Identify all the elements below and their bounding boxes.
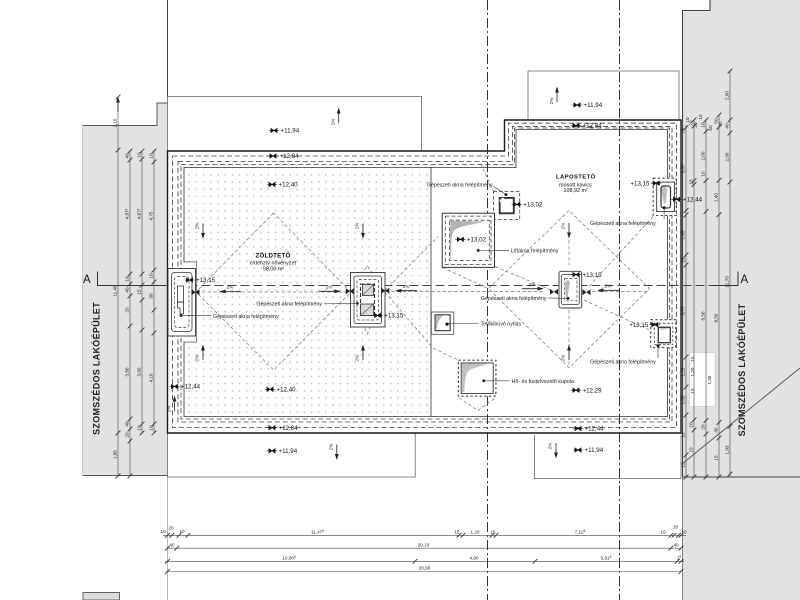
svg-text:20: 20 bbox=[673, 525, 679, 530]
small grey bar bottom-left bbox=[83, 593, 120, 600]
svg-text:+12,84: +12,84 bbox=[280, 153, 300, 160]
svg-text:4,10: 4,10 bbox=[149, 373, 154, 382]
svg-text:Gépészeti akna felépítmény: Gépészeti akna felépítmény bbox=[590, 359, 656, 365]
right dimension chain 2 (x=694) bbox=[689, 118, 697, 480]
svg-text:2%: 2% bbox=[195, 355, 200, 362]
leader label: tetokibuvo bbox=[448, 321, 521, 327]
green roof stipple field bbox=[185, 168, 431, 417]
svg-text:10: 10 bbox=[701, 122, 706, 128]
green roof drain centerline bbox=[196, 291, 350, 293]
svg-text:1,65: 1,65 bbox=[681, 230, 686, 239]
svg-text:2,15: 2,15 bbox=[113, 118, 118, 127]
svg-text:2%: 2% bbox=[355, 355, 360, 362]
svg-text:8,50: 8,50 bbox=[701, 311, 706, 320]
svg-text:1,20: 1,20 bbox=[681, 367, 686, 376]
svg-text:10: 10 bbox=[689, 422, 694, 428]
kupola valley V bbox=[459, 398, 496, 411]
svg-text:20: 20 bbox=[125, 432, 130, 438]
section line A-A bbox=[98, 285, 739, 287]
ray lift SW to flat diamond west vertex bbox=[443, 268, 489, 289]
svg-text:10: 10 bbox=[149, 273, 154, 279]
ray lift corner to center drain bbox=[495, 267, 552, 291]
svg-text:20: 20 bbox=[168, 526, 174, 531]
svg-text:10: 10 bbox=[125, 276, 130, 282]
svg-text:40: 40 bbox=[673, 542, 679, 547]
svg-text:10: 10 bbox=[660, 530, 666, 535]
bottom dimension row 4 bbox=[165, 566, 683, 574]
svg-text:50: 50 bbox=[708, 125, 713, 131]
svg-text:2%: 2% bbox=[167, 406, 172, 413]
svg-text:A: A bbox=[741, 274, 749, 286]
dimension 2,15 top left bbox=[113, 95, 121, 153]
center flat-roof drain structure D3 bbox=[550, 271, 591, 308]
svg-text:2%: 2% bbox=[549, 98, 554, 105]
ray middle drain to kupola bbox=[385, 292, 458, 360]
right dimension chain 1 (x=686) bbox=[681, 125, 689, 479]
svg-text:4,75: 4,75 bbox=[149, 211, 154, 220]
title laposteto bbox=[556, 174, 596, 195]
svg-text:Gépészeti akna felépítmény: Gépészeti akna felépítmény bbox=[256, 302, 322, 308]
svg-text:98,00 m²: 98,00 m² bbox=[263, 267, 284, 273]
right neighbour building grey block lower bbox=[683, 477, 800, 600]
svg-text:2,00: 2,00 bbox=[701, 151, 706, 160]
svg-text:+12,44: +12,44 bbox=[585, 426, 605, 433]
svg-text:2%: 2% bbox=[355, 223, 360, 230]
svg-text:Liftakna felépítmény: Liftakna felépítmény bbox=[511, 248, 559, 254]
flat roof centerline east bbox=[587, 291, 650, 293]
left dimension chain 2 (x=130) bbox=[125, 149, 133, 479]
white zone of left drain notch bbox=[184, 262, 196, 341]
svg-text:15: 15 bbox=[490, 530, 496, 535]
right dimension chain 6 (x=738 12,70) bbox=[725, 276, 730, 288]
svg-text:+12,29: +12,29 bbox=[583, 387, 603, 394]
svg-text:Gépészeti akna felépítmény: Gépészeti akna felépítmény bbox=[427, 183, 493, 189]
svg-text:10: 10 bbox=[179, 529, 185, 534]
svg-text:2%: 2% bbox=[529, 282, 536, 287]
svg-text:+12,40: +12,40 bbox=[279, 182, 299, 189]
svg-text:10,085: 10,085 bbox=[282, 555, 296, 560]
top-right parapet drain structure bbox=[653, 178, 676, 219]
svg-text:108,92 m²: 108,92 m² bbox=[563, 188, 587, 194]
ray middle drain to lift corner bbox=[385, 237, 438, 291]
svg-text:40: 40 bbox=[725, 123, 730, 129]
extension line below building left bbox=[167, 477, 169, 600]
svg-text:ZÖLDTETŐ: ZÖLDTETŐ bbox=[256, 252, 291, 259]
svg-text:+13,15: +13,15 bbox=[196, 277, 216, 284]
right dimension chain 5 (x=730) bbox=[725, 69, 733, 477]
svg-text:40: 40 bbox=[125, 421, 130, 427]
svg-text:10: 10 bbox=[685, 117, 690, 123]
property diagonal line on right grey bbox=[683, 368, 800, 464]
svg-text:Tetőkibúvó nyílás: Tetőkibúvó nyílás bbox=[481, 321, 522, 327]
svg-text:Gépészeti akna felépítmény: Gépészeti akna felépítmény bbox=[213, 314, 279, 320]
svg-text:10: 10 bbox=[681, 530, 687, 535]
leader label: gepeszeti akna D3 bbox=[481, 296, 568, 302]
svg-text:+12,84: +12,84 bbox=[279, 425, 299, 432]
svg-text:15: 15 bbox=[714, 455, 719, 461]
property line top bbox=[167, 0, 169, 97]
svg-text:Hő- és füstelvezető kupola: Hő- és füstelvezető kupola bbox=[512, 379, 574, 385]
svg-text:1,35: 1,35 bbox=[707, 375, 712, 384]
svg-text:SZOMSZÉDOS LAKÓÉPÜLET: SZOMSZÉDOS LAKÓÉPÜLET bbox=[91, 302, 102, 435]
left dimension chain 4 (x=154) bbox=[149, 149, 157, 436]
slope arrows 2 percent bbox=[167, 87, 620, 461]
svg-text:+11,94: +11,94 bbox=[584, 102, 603, 109]
middle drain small diamond bbox=[351, 266, 385, 334]
building outer outline bbox=[168, 120, 682, 433]
north-left lower roof strip +11,94 bbox=[168, 97, 422, 152]
svg-text:1,40: 1,40 bbox=[714, 193, 719, 202]
svg-text:SZOMSZÉDOS LAKÓÉPÜLET: SZOMSZÉDOS LAKÓÉPÜLET bbox=[736, 303, 747, 436]
svg-text:40: 40 bbox=[125, 153, 130, 159]
ray top-right drain to center drain bbox=[588, 217, 654, 289]
smoke vent dome kupola bbox=[458, 360, 496, 396]
svg-text:1,93: 1,93 bbox=[725, 445, 730, 454]
green/flat roof boundary line bbox=[430, 168, 432, 417]
right dimension chain 4 (x=719) bbox=[714, 113, 722, 480]
parapet inner boundary with drain notch bbox=[184, 130, 668, 417]
svg-text:+13,15: +13,15 bbox=[384, 313, 404, 320]
svg-text:2%: 2% bbox=[331, 119, 336, 126]
svg-text:15: 15 bbox=[454, 530, 460, 535]
svg-text:2%: 2% bbox=[605, 284, 612, 289]
right dimension chain 3 (x=706) bbox=[701, 118, 709, 480]
leader label: gepeszeti akna bottom-right bbox=[590, 359, 656, 365]
north-right lower roof strip +11,94 bbox=[528, 71, 679, 120]
svg-text:15: 15 bbox=[689, 179, 694, 185]
flat roof centerline west bbox=[386, 291, 544, 293]
svg-text:2%: 2% bbox=[561, 355, 566, 362]
section grid dash-dot line x=619.5 bbox=[619, 0, 621, 600]
parapet dashed line 1 bbox=[173, 123, 677, 427]
svg-text:15: 15 bbox=[137, 289, 142, 295]
svg-text:+13,15: +13,15 bbox=[630, 180, 650, 187]
svg-text:1,20: 1,20 bbox=[690, 367, 695, 376]
leader label: gepeszeti akna D2 bbox=[256, 302, 357, 308]
svg-text:12,70: 12,70 bbox=[725, 276, 730, 288]
middle drain structure D2 bbox=[346, 273, 390, 328]
ray center drain to bottom-right drain bbox=[584, 300, 652, 331]
svg-text:18: 18 bbox=[681, 257, 686, 263]
svg-text:10: 10 bbox=[701, 171, 706, 177]
green roof ridge diamond bbox=[196, 213, 351, 370]
svg-text:2%: 2% bbox=[329, 444, 334, 451]
svg-text:30: 30 bbox=[149, 293, 154, 299]
svg-text:+11,94: +11,94 bbox=[279, 448, 298, 455]
svg-text:Gépészeti akna felépítmény: Gépészeti akna felépítmény bbox=[481, 296, 547, 302]
leader label: kupola bbox=[484, 379, 574, 385]
svg-text:2%: 2% bbox=[548, 443, 553, 450]
svg-text:A: A bbox=[83, 274, 91, 286]
svg-text:10: 10 bbox=[160, 529, 166, 534]
svg-text:+13,02: +13,02 bbox=[523, 202, 543, 209]
left neighbour building grey block bbox=[83, 103, 168, 476]
section mark A right bracket bbox=[712, 272, 749, 287]
svg-text:+12,40: +12,40 bbox=[277, 387, 297, 394]
svg-text:40: 40 bbox=[718, 121, 723, 127]
title zoldteto bbox=[250, 252, 297, 272]
leader label: liftakna bbox=[478, 248, 559, 254]
svg-text:10: 10 bbox=[149, 153, 154, 159]
svg-text:20: 20 bbox=[125, 307, 130, 313]
south-east lower roof strip bbox=[534, 435, 681, 479]
svg-text:LAPOSTETŐ: LAPOSTETŐ bbox=[556, 174, 596, 181]
svg-text:+13,15: +13,15 bbox=[583, 272, 603, 279]
left parapet drain structure D1 bbox=[168, 269, 200, 337]
svg-text:2%: 2% bbox=[561, 223, 566, 230]
svg-text:40: 40 bbox=[169, 542, 175, 547]
svg-text:10: 10 bbox=[689, 447, 694, 453]
top right chain labels cluster bbox=[685, 114, 723, 131]
svg-text:2%: 2% bbox=[195, 223, 200, 230]
roof access hatch bbox=[431, 312, 454, 334]
svg-text:4,87³: 4,87³ bbox=[125, 208, 130, 219]
leader label: gepeszeti akna top-right bbox=[590, 221, 656, 227]
svg-text:20,90: 20,90 bbox=[419, 566, 431, 571]
ray parapet step to top shaft bbox=[481, 164, 494, 192]
right neighbour building grey block upper bbox=[683, 0, 800, 477]
svg-text:4,90: 4,90 bbox=[470, 556, 479, 561]
svg-text:3,80: 3,80 bbox=[125, 367, 130, 376]
section grid dash-dot line x=487.5 bbox=[487, 0, 489, 600]
leader label: gepeszeti akna top shaft bbox=[427, 183, 506, 195]
svg-text:10: 10 bbox=[137, 152, 142, 158]
svg-text:15: 15 bbox=[681, 462, 686, 468]
vertical watershed above center drain bbox=[568, 240, 570, 265]
parapet dashed line 3 bbox=[181, 128, 670, 419]
svg-text:1,35: 1,35 bbox=[681, 395, 686, 404]
svg-text:2,00: 2,00 bbox=[725, 152, 730, 161]
svg-text:+11,94: +11,94 bbox=[585, 447, 604, 454]
svg-text:1,85: 1,85 bbox=[113, 450, 118, 459]
svg-text:2%: 2% bbox=[227, 285, 234, 290]
svg-text:20: 20 bbox=[701, 424, 706, 430]
svg-text:+12,44: +12,44 bbox=[181, 384, 201, 391]
vertical watershed below center drain bbox=[568, 310, 570, 366]
svg-text:3,37: 3,37 bbox=[681, 164, 686, 173]
svg-text:11,45: 11,45 bbox=[113, 285, 118, 297]
bottom dimension row 3 bbox=[165, 555, 684, 563]
section mark A left bracket bbox=[83, 272, 166, 287]
svg-text:1,20: 1,20 bbox=[471, 530, 480, 535]
svg-text:2%: 2% bbox=[403, 284, 410, 289]
svg-text:10: 10 bbox=[681, 432, 686, 438]
svg-text:+13,02: +13,02 bbox=[467, 237, 487, 244]
white patch dimension texts bbox=[690, 356, 712, 394]
svg-text:10: 10 bbox=[681, 128, 686, 134]
svg-text:10: 10 bbox=[149, 425, 154, 431]
bottom-right parapet drain structure bbox=[651, 320, 676, 358]
svg-text:3,80: 3,80 bbox=[137, 367, 142, 376]
svg-text:40: 40 bbox=[125, 287, 130, 293]
lift shaft structure bbox=[442, 213, 494, 267]
left dimension chain 1 (x=118) bbox=[113, 150, 121, 478]
bottom dimension row 1 bbox=[160, 525, 687, 538]
svg-text:10: 10 bbox=[698, 114, 703, 120]
left dimension chain 3 (x=142) bbox=[137, 149, 145, 436]
parapet dashed line 2 bbox=[178, 126, 672, 422]
svg-text:4,67³: 4,67³ bbox=[137, 208, 142, 219]
svg-text:extenzív növényzet: extenzív növényzet bbox=[250, 260, 297, 266]
svg-text:+12,84: +12,84 bbox=[583, 123, 603, 130]
svg-text:8,50: 8,50 bbox=[714, 313, 719, 322]
elevation level markers bbox=[169, 102, 702, 455]
leader label: gepeszeti akna D1 bbox=[181, 314, 279, 320]
svg-text:15: 15 bbox=[690, 388, 695, 394]
svg-text:15: 15 bbox=[690, 356, 695, 362]
south-west lower roof strip bbox=[168, 433, 416, 477]
svg-text:2%: 2% bbox=[326, 285, 333, 290]
mechanical shaft top +13,02 bbox=[493, 191, 519, 219]
svg-text:2,00: 2,00 bbox=[725, 91, 730, 100]
svg-text:40: 40 bbox=[714, 427, 719, 433]
flat roof ridge diamond bbox=[488, 211, 649, 368]
svg-text:+13,15: +13,15 bbox=[629, 322, 649, 329]
white dimension patch on right grey bbox=[690, 353, 716, 407]
svg-text:20: 20 bbox=[693, 122, 698, 128]
svg-text:3,77: 3,77 bbox=[681, 306, 686, 315]
svg-text:10: 10 bbox=[137, 425, 142, 431]
svg-text:Gépészeti akna felépítmény: Gépészeti akna felépítmény bbox=[590, 221, 656, 227]
svg-text:+11,94: +11,94 bbox=[281, 128, 300, 135]
svg-text:20,10: 20,10 bbox=[418, 542, 430, 547]
bottom dimension row 2 bbox=[165, 542, 683, 550]
